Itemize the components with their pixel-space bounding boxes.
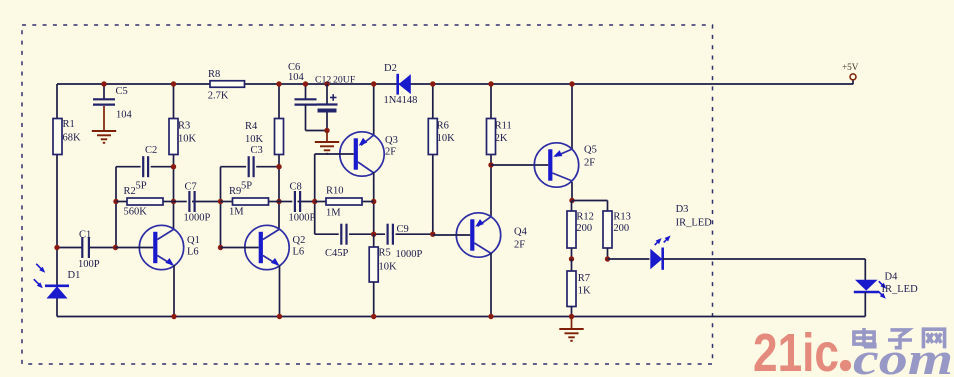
wire C3 feedback loop <box>221 166 247 168</box>
wire R2 row <box>116 201 127 203</box>
capacitor C2 <box>143 156 148 177</box>
ground at C5 <box>103 106 105 131</box>
wire D3 to D4 <box>663 258 866 260</box>
node R6 bottom / Q4 base <box>430 232 435 237</box>
svg-text:1M: 1M <box>229 207 244 218</box>
resistor R11 <box>487 119 496 155</box>
svg-text:R5: R5 <box>379 248 391 259</box>
transistor Q3 <box>340 132 384 176</box>
node R10 left <box>312 199 317 204</box>
svg-text:10K: 10K <box>379 262 398 273</box>
wire R1-D1 branch <box>56 84 58 317</box>
LED D4 <box>855 280 878 291</box>
svg-text:2K: 2K <box>495 133 508 144</box>
capacitor C8 <box>295 191 300 212</box>
resistor R3 <box>169 119 178 155</box>
wire Q3 base vertical <box>314 154 316 234</box>
wire C6 lead <box>305 84 307 100</box>
transistor Q5 <box>534 143 578 187</box>
wire C1 row <box>57 247 82 249</box>
capacitor C9 <box>388 224 393 245</box>
svg-text:R12: R12 <box>576 212 594 223</box>
wire R12-R13 bottom <box>571 248 573 259</box>
resistor R8 <box>210 81 245 88</box>
node R2 left <box>113 199 118 204</box>
resistor R5 <box>373 234 375 247</box>
node R10 right <box>371 199 376 204</box>
wire Q5 base from R11 <box>491 164 535 166</box>
node R3 top <box>171 81 176 86</box>
svg-text:C45P: C45P <box>325 248 349 259</box>
svg-text:104: 104 <box>288 72 305 83</box>
power +5V terminal <box>852 80 854 84</box>
svg-text:68K: 68K <box>63 133 82 144</box>
svg-text:R3: R3 <box>178 120 190 131</box>
transistor Q2 <box>245 225 289 269</box>
node C6 top <box>303 81 308 86</box>
capacitor C4 <box>341 224 346 245</box>
resistor R2 <box>127 198 163 205</box>
node Q4 collector-rail <box>488 314 493 319</box>
svg-text:10K: 10K <box>178 134 197 145</box>
svg-text:104: 104 <box>116 110 133 121</box>
node R5 bottom rail <box>371 314 376 319</box>
wire R11 vertical <box>490 84 492 216</box>
node Q3 emitter top <box>371 81 376 86</box>
svg-text:2.7K: 2.7K <box>208 91 229 102</box>
node R7 bottom rail <box>569 314 574 319</box>
wire Q5 collector down <box>571 182 573 201</box>
wire C12 lead <box>326 84 328 105</box>
svg-text:L6: L6 <box>293 247 305 258</box>
wire R3-Q1 collector vertical <box>173 84 175 230</box>
capacitor C3 <box>249 156 254 177</box>
wire Q5 emitter from rail <box>571 84 573 150</box>
wire C4-C9 row <box>315 233 339 235</box>
svg-text:+5V: +5V <box>842 62 859 72</box>
wire R6 vertical <box>432 84 434 234</box>
svg-text:R2: R2 <box>124 186 136 197</box>
svg-text:C9: C9 <box>397 224 409 235</box>
wire Q3 collector down <box>373 172 375 234</box>
node C2 right <box>171 164 176 169</box>
resistor R4 <box>275 119 284 155</box>
node C5 top <box>101 81 106 86</box>
node Q1 emitter-rail <box>171 314 176 319</box>
svg-text:200: 200 <box>613 223 629 234</box>
node R12 bottom <box>569 256 574 261</box>
svg-text:C1: C1 <box>79 230 91 241</box>
svg-text:C12: C12 <box>315 75 331 86</box>
svg-text:100P: 100P <box>78 259 100 270</box>
node R5 top <box>371 232 376 237</box>
svg-text:R13: R13 <box>613 212 631 223</box>
svg-text:20UF: 20UF <box>333 75 356 86</box>
resistor R12 <box>567 211 576 248</box>
svg-text:5P: 5P <box>136 181 147 192</box>
svg-text:Q1: Q1 <box>187 235 200 246</box>
svg-text:1N4148: 1N4148 <box>384 95 418 106</box>
svg-text:Q4: Q4 <box>514 227 528 238</box>
node R9 left <box>218 199 223 204</box>
wire Q2 emitter down <box>279 265 281 317</box>
capacitor C12 electrolytic <box>317 103 338 105</box>
node C3 right <box>276 164 281 169</box>
node Q1 base <box>113 245 118 250</box>
svg-text:10K: 10K <box>437 133 456 144</box>
node R13 bottom <box>605 256 610 261</box>
svg-text:C2: C2 <box>145 145 157 156</box>
svg-text:2F: 2F <box>584 158 595 169</box>
node R6 top <box>430 81 435 86</box>
node R2 right <box>171 199 176 204</box>
wire R9 row <box>221 201 233 203</box>
wire Q3 emitter from rail <box>373 84 375 136</box>
wire C7 row <box>174 201 187 203</box>
svg-text:R11: R11 <box>495 120 512 131</box>
capacitor C1 <box>82 237 89 258</box>
svg-text:1000P: 1000P <box>184 213 211 224</box>
photodiode D1 <box>47 286 68 298</box>
node R9 right <box>276 199 281 204</box>
svg-text:D3: D3 <box>676 204 689 215</box>
svg-text:R8: R8 <box>208 69 220 80</box>
wire C5 lead <box>103 84 105 100</box>
resistor R9 <box>233 198 269 205</box>
node C12 top <box>324 81 329 86</box>
svg-text:C5: C5 <box>116 86 128 97</box>
svg-text:1000P: 1000P <box>289 213 316 224</box>
svg-text:Q2: Q2 <box>293 235 306 246</box>
node R4 top <box>276 81 281 86</box>
node Q2 base <box>218 245 223 250</box>
svg-text:21ic: 21ic <box>753 323 839 377</box>
svg-text:D4: D4 <box>885 272 899 283</box>
svg-text:D1: D1 <box>68 270 81 281</box>
svg-text:com: com <box>853 333 953 377</box>
svg-text:C7: C7 <box>185 182 197 193</box>
svg-text:200: 200 <box>576 223 592 234</box>
resistor R10 <box>326 198 362 205</box>
svg-text:2F: 2F <box>514 240 525 251</box>
node R1-C1 <box>54 245 59 250</box>
wire Q4 collector down <box>490 253 492 317</box>
wire to D3 <box>608 258 650 260</box>
diode D2 1N4148 <box>396 74 399 95</box>
svg-text:C8: C8 <box>290 182 302 193</box>
node R11 top <box>488 81 493 86</box>
ground at C12 <box>326 131 328 143</box>
svg-text:1M: 1M <box>326 208 341 219</box>
wire C6 bottom <box>305 105 307 131</box>
wire R12-R13 top <box>572 200 608 202</box>
wire C2 feedback loop <box>116 166 141 168</box>
svg-text:1000P: 1000P <box>396 249 423 260</box>
svg-text:R9: R9 <box>229 186 241 197</box>
resistor R6 <box>428 119 437 155</box>
svg-text:R10: R10 <box>326 186 344 197</box>
capacitor C7 <box>189 191 194 212</box>
svg-text:L6: L6 <box>187 247 199 258</box>
node Q5 collector <box>569 198 574 203</box>
capacitor C5 <box>93 99 115 104</box>
svg-text:R7: R7 <box>578 273 590 284</box>
ground at R7 <box>571 317 573 330</box>
node R11 bottom <box>488 162 493 167</box>
svg-text:IR_LED: IR_LED <box>882 284 919 295</box>
wire +5V top rail <box>57 83 853 85</box>
svg-text:560K: 560K <box>124 207 148 218</box>
wire ground bottom rail <box>57 316 865 318</box>
wire C8 row <box>279 201 292 203</box>
svg-text:R6: R6 <box>437 120 449 131</box>
watermark 21ic.com logo <box>753 323 953 377</box>
capacitor C6 <box>295 99 317 104</box>
resistor R7 <box>571 259 573 271</box>
svg-text:C3: C3 <box>251 145 263 156</box>
wire D4 down to rail <box>864 292 866 317</box>
svg-text:R4: R4 <box>245 121 258 132</box>
wire R4-Q2 collector vertical <box>278 84 280 230</box>
node Q2 emitter-rail <box>277 314 282 319</box>
svg-text:R1: R1 <box>63 119 75 130</box>
svg-text:IR_LED: IR_LED <box>676 218 713 229</box>
LED D3 <box>650 249 662 269</box>
transistor Q4 <box>456 213 500 257</box>
wire Q1 emitter down <box>173 265 175 317</box>
resistor R1 <box>53 119 62 155</box>
dashed border frame <box>22 25 713 364</box>
svg-text:Q5: Q5 <box>584 145 597 156</box>
svg-text:D2: D2 <box>384 63 397 74</box>
svg-text:10K: 10K <box>245 134 264 145</box>
transistor Q1 <box>139 225 183 269</box>
node Q5 emitter top <box>569 81 574 86</box>
svg-text:1K: 1K <box>578 286 591 297</box>
wire R10 row <box>315 201 326 203</box>
svg-text:Q3: Q3 <box>385 135 398 146</box>
svg-text:5P: 5P <box>241 181 252 192</box>
resistor R13 <box>603 211 612 248</box>
svg-text:2F: 2F <box>385 146 396 157</box>
node C6-C12 junction <box>324 128 329 133</box>
